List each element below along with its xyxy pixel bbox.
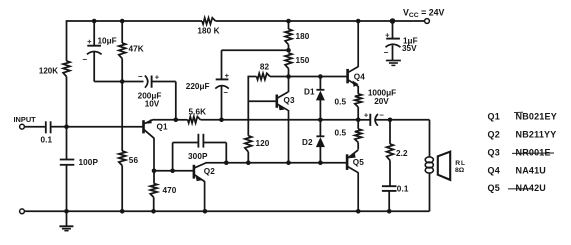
node 56-ground bbox=[120, 209, 125, 214]
transistor Q1 bbox=[142, 120, 145, 133]
wire 1000uF to output rail node bbox=[376, 119, 390, 121]
wire 82 column down to Q3 base tee bbox=[247, 76, 249, 102]
wire 120 to bus bbox=[247, 152, 249, 163]
svg-text:−: − bbox=[380, 111, 385, 120]
wire diode midpoint to D2 bbox=[319, 120, 321, 136]
resistor 82 bbox=[257, 73, 271, 79]
svg-text:INPUT: INPUT bbox=[14, 115, 37, 124]
wire rail 176-188 bbox=[176, 119, 188, 121]
svg-text:Q5: Q5 bbox=[488, 183, 500, 193]
svg-text:35V: 35V bbox=[402, 44, 417, 53]
wire 82 right to bias node bbox=[270, 76, 289, 78]
node 120-bus junction bbox=[246, 160, 251, 165]
node bias row junction bbox=[286, 74, 291, 79]
svg-text:Q3: Q3 bbox=[488, 147, 500, 157]
svg-text:47K: 47K bbox=[129, 45, 144, 54]
wire top rail left segment (filtered supply) bbox=[67, 20, 203, 22]
node D1 top junction bbox=[318, 74, 323, 79]
svg-text:0.1: 0.1 bbox=[397, 184, 409, 193]
wire 56 to ground rail bbox=[121, 166, 123, 212]
svg-text:470: 470 bbox=[163, 186, 177, 195]
wire rail to 1uF bbox=[392, 21, 394, 38]
parts list text bbox=[488, 112, 557, 193]
capacitor 0.1 input coupling bbox=[45, 121, 47, 133]
wire 10uF bottom corner to bias node bbox=[93, 80, 95, 83]
wire rail to 180 bbox=[288, 21, 290, 29]
VCC terminal bbox=[425, 19, 430, 24]
node 300P-left junction bbox=[170, 169, 175, 174]
wire column across rail to 120 bbox=[247, 101, 249, 135]
resistor 120K bbox=[63, 61, 70, 77]
node 47K top bbox=[120, 19, 125, 24]
wire rail 5.6K to 220uF node bbox=[201, 119, 222, 121]
node speaker-branch junction bbox=[388, 118, 393, 123]
svg-text:180: 180 bbox=[296, 32, 310, 41]
svg-text:220μF: 220μF bbox=[186, 82, 210, 91]
node diode midpoint junction bbox=[318, 118, 323, 123]
wire 47K to bias node bbox=[121, 59, 123, 82]
svg-text:D1: D1 bbox=[304, 87, 315, 96]
capacitor 100P bbox=[60, 159, 75, 161]
wire VCC-left corner down to 120K bbox=[66, 20, 68, 61]
node Q5-ground bbox=[356, 209, 361, 214]
svg-text:Q3: Q3 bbox=[284, 96, 295, 105]
svg-text:+: + bbox=[87, 37, 92, 46]
svg-text:Q1: Q1 bbox=[157, 123, 168, 132]
node 180 top bbox=[286, 19, 291, 24]
svg-text:−: − bbox=[224, 88, 229, 97]
svg-text:8Ω: 8Ω bbox=[455, 167, 465, 174]
wire 120K to input node bbox=[66, 77, 68, 127]
svg-text:+: + bbox=[225, 71, 230, 80]
svg-text:10μF: 10μF bbox=[98, 36, 117, 45]
wire 300P right bbox=[204, 142, 226, 144]
transistor Q4 bbox=[346, 69, 349, 83]
wire 180-150 node to corner to 220uF bbox=[222, 49, 289, 51]
wire 1uF to ground bbox=[392, 45, 394, 60]
node D2-bus junction bbox=[318, 160, 323, 165]
wire Q1 emitter to rail bbox=[153, 119, 175, 121]
svg-text:−: − bbox=[138, 72, 143, 81]
diode D2 bbox=[316, 135, 324, 137]
svg-text:−: − bbox=[82, 55, 87, 64]
wire 180 to node bbox=[288, 45, 290, 51]
capacitor 0.1 bbox=[382, 185, 397, 187]
svg-text:300P: 300P bbox=[188, 152, 208, 161]
wire Q1 base bbox=[67, 126, 143, 128]
svg-text:NR001E: NR001E bbox=[516, 147, 551, 157]
svg-text:5.6K: 5.6K bbox=[188, 107, 206, 116]
wire 82 left to column bbox=[248, 76, 256, 78]
svg-text:10V: 10V bbox=[145, 99, 160, 108]
svg-text:0.5: 0.5 bbox=[335, 98, 347, 107]
svg-text:Q2: Q2 bbox=[204, 167, 215, 176]
wire input terminal to cap bbox=[24, 126, 45, 128]
svg-text:NA42U: NA42U bbox=[516, 183, 547, 193]
wire output to speaker top bbox=[390, 119, 430, 121]
capacitor 200uF 10V (polarized) bbox=[145, 76, 148, 88]
node 220uF bottom junction bbox=[219, 118, 224, 123]
node output junction (0.5/0.5) bbox=[356, 118, 361, 123]
svg-text:Q5: Q5 bbox=[353, 158, 364, 167]
resistor 47K bbox=[119, 43, 126, 59]
input terminal bbox=[20, 124, 25, 129]
wire output rail middle (crosses 120 and Q3 columns) bbox=[222, 119, 321, 121]
node 0.1-ground bbox=[387, 209, 392, 214]
resistor 120 bbox=[245, 136, 252, 152]
svg-text:+: + bbox=[385, 30, 390, 39]
wire Q3 base bbox=[248, 100, 276, 102]
node 180-150 junction bbox=[286, 48, 291, 53]
svg-text:+: + bbox=[364, 110, 369, 119]
wire 150 to bias row bbox=[288, 69, 290, 77]
wire rail to 47K bbox=[121, 21, 123, 43]
ground (1uF) bbox=[386, 60, 401, 62]
wire speaker to ground rail bbox=[429, 173, 431, 211]
node 470-ground bbox=[151, 209, 156, 214]
wire bias node down across base wire bbox=[121, 82, 123, 152]
wire Q4 emitter to 0.5 bbox=[357, 86, 359, 94]
svg-text:NA41U: NA41U bbox=[516, 165, 547, 175]
svg-text:+: + bbox=[155, 73, 160, 82]
resistor 150 bbox=[285, 53, 292, 69]
diode D1 bbox=[316, 89, 324, 91]
wire top rail right segment to VCC bbox=[216, 20, 425, 22]
node Q2-ground bbox=[203, 209, 208, 214]
node 100P-ground bbox=[64, 209, 69, 214]
node bias junction A bbox=[120, 79, 125, 84]
wire Q2 base bbox=[154, 170, 193, 172]
svg-text:Q4: Q4 bbox=[488, 165, 500, 175]
wire input cap to junction bbox=[51, 126, 67, 128]
svg-text:1000μF: 1000μF bbox=[368, 88, 396, 97]
speaker cone RL bbox=[438, 152, 450, 180]
speaker voice coil bbox=[425, 157, 433, 163]
resistor 180 bbox=[285, 29, 292, 45]
resistor 180K (in top rail) bbox=[202, 18, 216, 24]
wire output node to 0.5 lower bbox=[357, 120, 359, 129]
node Q1-470 junction bbox=[152, 169, 157, 174]
svg-text:180 K: 180 K bbox=[197, 27, 219, 36]
svg-text:120K: 120K bbox=[39, 67, 58, 76]
svg-text:Q4: Q4 bbox=[354, 73, 365, 82]
node 300P-bus junction bbox=[224, 160, 229, 165]
transistor Q2 bbox=[193, 165, 196, 179]
svg-text:2.2: 2.2 bbox=[396, 149, 408, 158]
wire bias row to Q4 base bbox=[320, 76, 347, 78]
transistor Q3 bbox=[275, 95, 278, 108]
wire Q1 to 470 bbox=[153, 171, 155, 184]
wire driver bus (Q2 collector to Q5 base) bbox=[206, 162, 347, 164]
wire 300P left bbox=[172, 143, 174, 171]
capacitor 220uF (polarized) bbox=[216, 78, 229, 80]
transistor Q5 bbox=[346, 154, 349, 170]
wire 220uF to rail bbox=[221, 87, 223, 120]
svg-text:100P: 100P bbox=[79, 158, 99, 167]
svg-text:0.1: 0.1 bbox=[41, 136, 53, 145]
node input junction bbox=[64, 124, 69, 129]
wire bias row to D1 top bbox=[289, 76, 321, 78]
wire rail to 10uF bbox=[93, 21, 95, 45]
node 1uF top bbox=[390, 18, 396, 24]
svg-text:D2: D2 bbox=[302, 138, 313, 147]
wire bias node to 200uF bbox=[122, 81, 143, 83]
resistor 0.5 lower bbox=[355, 129, 362, 143]
svg-text:150: 150 bbox=[296, 56, 310, 65]
resistor 0.5 upper bbox=[355, 94, 362, 107]
svg-text:NB021EY: NB021EY bbox=[516, 112, 557, 122]
resistor 2.2 bbox=[387, 144, 394, 161]
wire node to 2.2 bbox=[389, 120, 391, 144]
wire input node down to 100P bbox=[66, 127, 68, 160]
wire 0.1 to ground rail bbox=[388, 191, 390, 211]
node 200uF-rail junction bbox=[174, 118, 179, 123]
capacitor 1uF 35V (polarized) bbox=[386, 38, 400, 40]
svg-text:−: − bbox=[384, 48, 389, 57]
svg-text:82: 82 bbox=[260, 63, 270, 72]
node 10uF top bbox=[92, 19, 97, 24]
svg-text:20V: 20V bbox=[374, 97, 389, 106]
capacitor 10uF (polarized) bbox=[87, 45, 101, 47]
wire 2.2 to 0.1 bbox=[389, 160, 391, 186]
wire 100P to ground rail bbox=[66, 165, 68, 212]
capacitor 1000uF (polarized) bbox=[369, 114, 371, 126]
node Q4 collector top bbox=[356, 19, 361, 24]
svg-text:0.5: 0.5 bbox=[335, 129, 347, 138]
wire bottom ground rail bbox=[24, 210, 429, 212]
wire output node to 1000uF bbox=[358, 119, 370, 121]
wire 200uF to corner down to feedback rail bbox=[152, 81, 176, 83]
svg-text:120: 120 bbox=[256, 139, 270, 148]
svg-text:Q1: Q1 bbox=[488, 112, 500, 122]
svg-text:NB211YY: NB211YY bbox=[516, 130, 557, 140]
resistor 470 bbox=[150, 183, 157, 197]
node Q3 emitter-bus junction bbox=[286, 160, 291, 165]
wire D1 top bbox=[319, 77, 321, 90]
scan artifact mark over NB021EY bbox=[514, 111, 523, 113]
ground (main) bbox=[66, 211, 68, 226]
scan artifact strike through NR001E bbox=[512, 152, 554, 154]
scan artifact strike through NA42U bbox=[508, 188, 532, 190]
resistor 56 bbox=[119, 151, 126, 166]
capacitor 300P bbox=[197, 134, 199, 148]
svg-text:Q2: Q2 bbox=[488, 130, 500, 140]
wire 0.5 lower to Q5 emitter bbox=[357, 142, 359, 149]
svg-text:56: 56 bbox=[129, 156, 139, 165]
resistor 5.6K (in rail) bbox=[188, 117, 201, 123]
wire rail to 0.5 junction bbox=[320, 119, 358, 121]
wire 0.5 upper to output node bbox=[357, 107, 359, 120]
ground-rail terminal bbox=[20, 209, 25, 214]
